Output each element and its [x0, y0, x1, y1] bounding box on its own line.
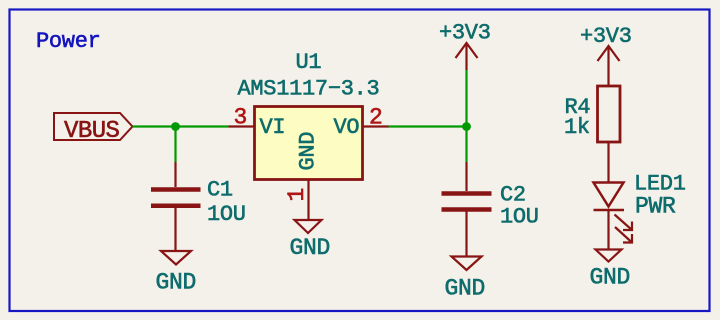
ground (LED1): [590, 250, 631, 291]
ground (C1): [156, 251, 197, 296]
svg-text:VI: VI: [260, 115, 286, 140]
global label VBUS: [54, 113, 133, 145]
svg-text:GND: GND: [590, 265, 631, 291]
ground (C2): [445, 257, 486, 302]
pin 2: [363, 105, 389, 131]
svg-text:C1: C1: [207, 178, 233, 203]
svg-text:2: 2: [369, 105, 382, 131]
svg-text:1: 1: [284, 188, 310, 201]
svg-text:1k: 1k: [564, 115, 590, 140]
node junction 1: [171, 122, 180, 131]
svg-text:Power: Power: [36, 29, 101, 54]
pin 3: [229, 105, 255, 131]
power +3V3 (left): [439, 21, 491, 71]
wire R4 to LED1: [607, 142, 609, 182]
regulator U1 body: [238, 50, 380, 180]
wire U1 pin 2 to junction 2: [389, 125, 467, 127]
svg-text:AMS1117−3.3: AMS1117−3.3: [238, 77, 380, 102]
svg-text:GND: GND: [445, 276, 486, 302]
svg-text:1OU: 1OU: [207, 202, 246, 227]
wire junction1 to C1: [174, 127, 176, 163]
svg-text:GND: GND: [296, 132, 321, 171]
svg-text:GND: GND: [290, 235, 331, 261]
svg-text:PWR: PWR: [635, 194, 676, 220]
capacitor C2: [442, 162, 539, 256]
svg-text:1OU: 1OU: [500, 205, 539, 230]
svg-text:VO: VO: [334, 115, 360, 140]
LED LED1: [594, 172, 686, 250]
svg-text:+3V3: +3V3: [439, 21, 491, 46]
svg-text:VBUS: VBUS: [64, 118, 120, 145]
ground (U1 pin 1): [290, 220, 331, 261]
node junction 2: [462, 122, 471, 131]
capacitor C1: [151, 162, 246, 250]
svg-text:GND: GND: [156, 270, 197, 296]
svg-text:U1: U1: [296, 50, 322, 75]
svg-text:+3V3: +3V3: [580, 24, 632, 49]
wire junction 2 up to +3V3: [465, 70, 467, 127]
power +3V3 (right): [580, 24, 632, 86]
pin 1: [284, 180, 310, 220]
svg-text:3: 3: [234, 105, 247, 131]
wire VBUS to U1 pin 3: [133, 125, 229, 127]
wire junction 2 down to C2: [465, 127, 467, 163]
resistor R4: [564, 86, 620, 142]
